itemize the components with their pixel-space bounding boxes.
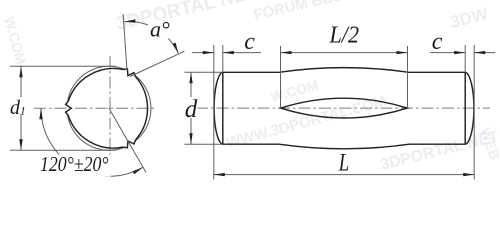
svg-text:120°±20°: 120°±20°: [40, 152, 109, 176]
svg-text:c: c: [244, 29, 255, 55]
svg-text:L/2: L/2: [329, 22, 359, 48]
svg-text:a°: a°: [150, 17, 170, 42]
svg-text:c: c: [432, 29, 443, 55]
svg-text:d: d: [185, 96, 198, 123]
svg-text:L: L: [338, 150, 349, 177]
